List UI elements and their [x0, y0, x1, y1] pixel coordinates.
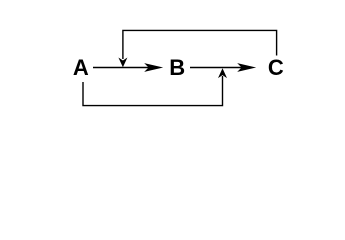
- svg-text:A: A: [73, 55, 89, 80]
- feedback wire C to A-B: [118, 30, 276, 67]
- svg-text:C: C: [268, 55, 284, 80]
- wire A to B: [93, 63, 163, 72]
- node C: [268, 55, 284, 80]
- node A: [73, 55, 89, 80]
- svg-text:B: B: [169, 55, 185, 80]
- node B: [169, 55, 185, 80]
- wire B to C: [190, 63, 256, 72]
- feedforward wire A to B-C: [83, 68, 227, 105]
